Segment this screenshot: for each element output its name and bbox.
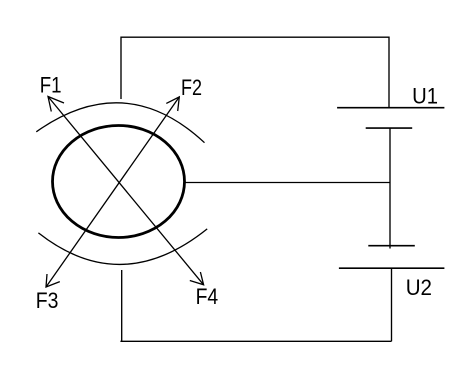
svg-text:F4: F4 — [196, 284, 219, 309]
svg-text:F1: F1 — [40, 73, 62, 98]
svg-text:F3: F3 — [36, 288, 59, 313]
svg-text:U1: U1 — [412, 83, 438, 108]
svg-text:F2: F2 — [181, 75, 202, 100]
svg-text:U2: U2 — [406, 275, 432, 300]
